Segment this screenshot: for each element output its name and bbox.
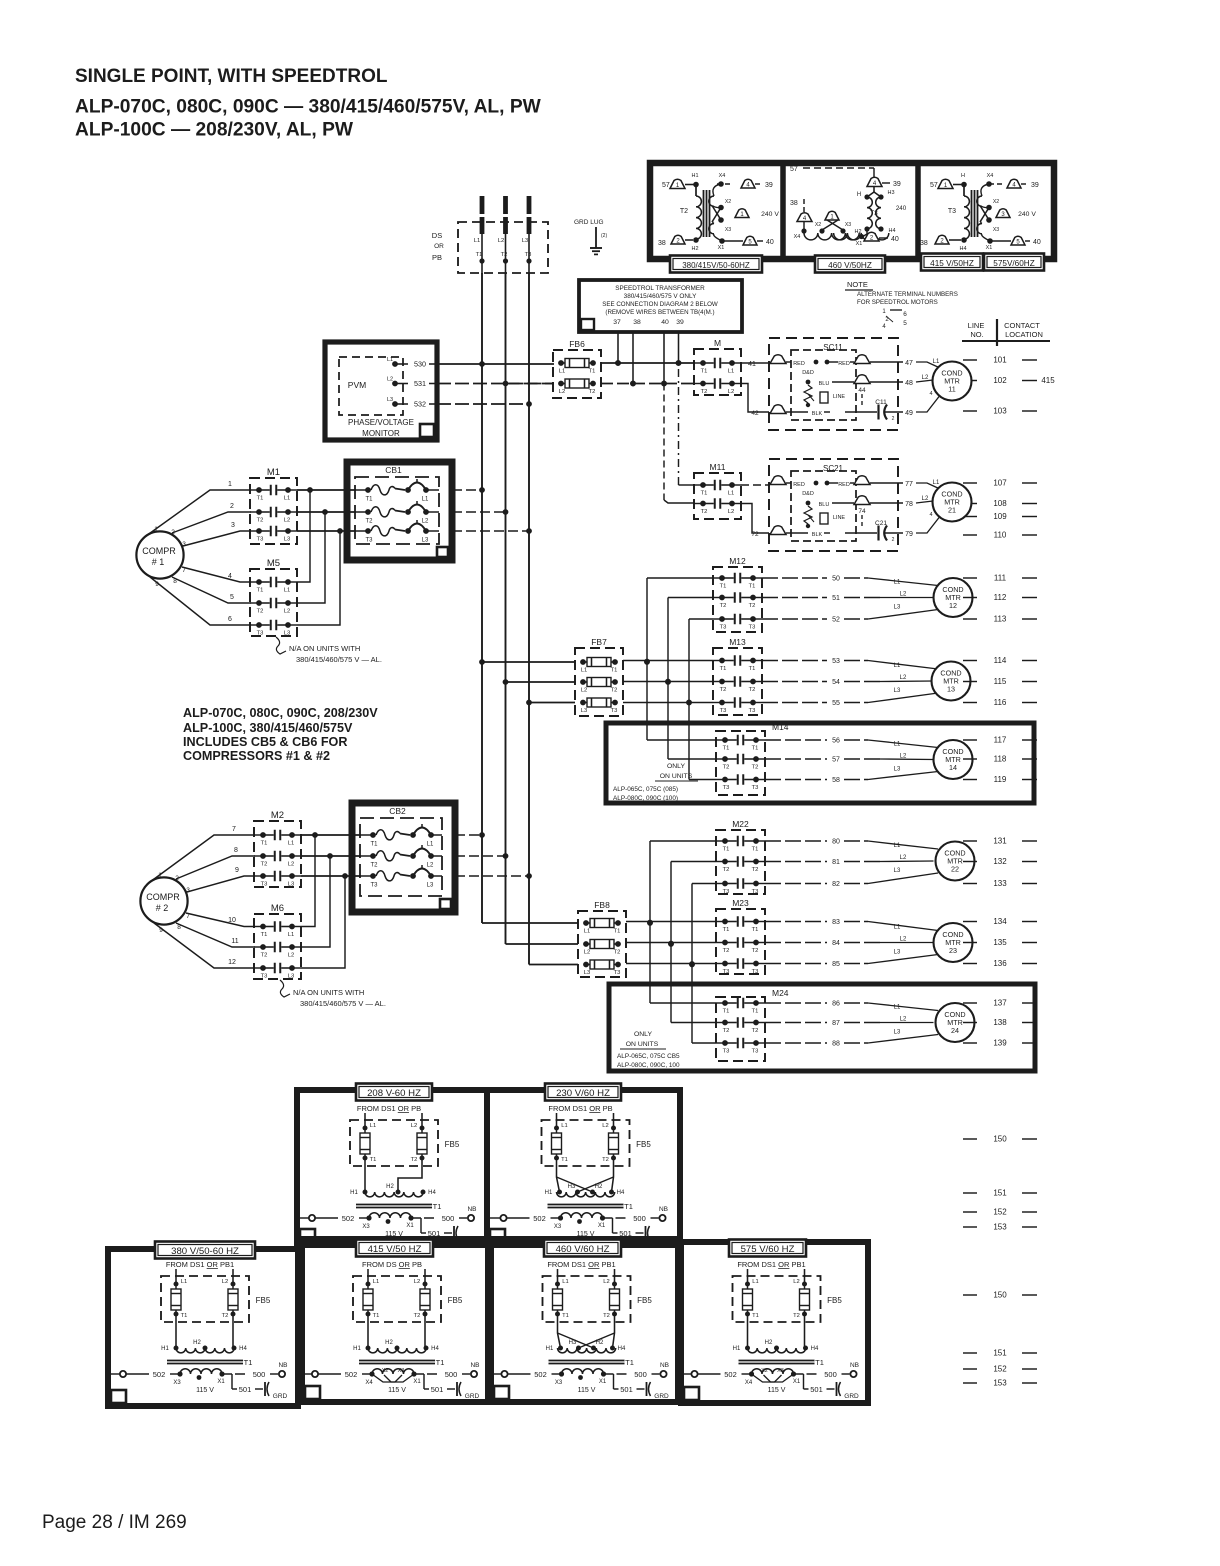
svg-text:T3: T3 [720,708,727,714]
transformer selection outer box [650,163,1054,259]
svg-text:575 V/60 HZ: 575 V/60 HZ [741,1244,795,1255]
svg-text:T1: T1 [476,252,483,258]
contactor M6 [254,903,301,980]
svg-text:1: 1 [228,481,232,488]
svg-text:L1: L1 [894,843,901,849]
line number 109 [963,512,1037,521]
svg-text:ALP-070C, 080C, 090C, 208/230V: ALP-070C, 080C, 090C, 208/230V [183,706,378,720]
svg-text:L1: L1 [370,1123,376,1129]
svg-text:L1: L1 [474,238,480,244]
svg-text:L2: L2 [288,862,294,868]
svg-text:ALP-080C, 090C, 100: ALP-080C, 090C, 100 [617,1062,680,1069]
wire 7 [150,826,255,882]
wire 5 [172,577,251,603]
svg-text:L1: L1 [728,369,734,375]
svg-text:INCLUDES CB5 & CB6 FOR: INCLUDES CB5 & CB6 FOR [183,735,347,749]
svg-text:T3: T3 [749,625,756,631]
svg-text:X4: X4 [987,173,994,179]
svg-text:102: 102 [993,376,1007,385]
svg-text:T1: T1 [720,584,727,590]
svg-text:M2: M2 [271,810,284,821]
svg-text:FB5: FB5 [636,1140,651,1149]
svg-text:T1: T1 [433,1202,442,1211]
only-on-units box M14 [606,723,1034,803]
svg-text:BLU: BLU [819,502,830,508]
svg-text:77: 77 [905,481,913,488]
svg-text:M13: M13 [729,637,746,647]
svg-text:115 V: 115 V [578,1387,596,1394]
svg-text:L1: L1 [561,1123,567,1129]
svg-text:GRD LUG: GRD LUG [574,219,604,226]
title heading [75,66,388,87]
svg-text:SINGLE POINT, WITH SPEEDTROL: SINGLE POINT, WITH SPEEDTROL [75,66,388,87]
svg-text:L1: L1 [584,929,590,935]
svg-text:58: 58 [832,777,840,784]
svg-text:N/A ON UNITS WITH: N/A ON UNITS WITH [289,644,360,653]
compressor 1 pin numbers [154,526,186,588]
circuit breaker CB1 [347,462,452,560]
panel 380V caption [155,1242,255,1259]
svg-text:40: 40 [891,236,899,243]
svg-text:137: 137 [993,999,1007,1008]
svg-text:C11: C11 [875,399,887,406]
svg-text:T2: T2 [411,1157,418,1163]
tap M5 L2 [297,512,325,603]
svg-text:NB: NB [470,1362,479,1369]
svg-text:24: 24 [951,1026,959,1035]
svg-text:L2: L2 [900,754,907,760]
svg-text:T1: T1 [752,1009,759,1015]
svg-text:L2: L2 [728,389,734,395]
svg-text:# 1: # 1 [152,557,165,567]
svg-text:M6: M6 [271,903,284,914]
svg-text:H4: H4 [617,1190,625,1196]
feeder x671 [668,862,716,1023]
svg-text:L3: L3 [581,708,587,714]
svg-text:4: 4 [882,324,886,330]
svg-text:X1: X1 [793,1379,801,1385]
svg-text:T2: T2 [793,1313,800,1319]
svg-text:FB6: FB6 [569,339,585,349]
svg-text:H1: H1 [353,1346,361,1352]
svg-text:11: 11 [231,938,238,945]
svg-text:X4: X4 [719,173,726,179]
svg-text:BLK: BLK [812,411,823,417]
svg-text:T3: T3 [752,785,759,791]
svg-text:T2: T2 [611,688,618,694]
transformer T1 380V circuit [108,1260,288,1400]
transformer panel 415V box [302,1239,488,1402]
transformer panel 230V box [487,1090,680,1245]
contactor M23 [716,898,765,975]
compressor 2 pin numbers [158,872,190,934]
line number 115 [963,677,1037,686]
svg-text:X2: X2 [725,199,731,205]
svg-text:132: 132 [993,857,1007,866]
svg-text:L3: L3 [894,767,901,773]
svg-text:X4: X4 [794,234,801,240]
line number 131 [963,837,1037,846]
svg-text:103: 103 [993,407,1007,416]
svg-text:FB5: FB5 [256,1296,271,1305]
svg-text:3: 3 [186,887,190,894]
wire 38 [630,332,636,386]
subtitle line 2 [75,120,354,141]
svg-text:531: 531 [414,379,426,388]
feeder x668 [665,598,716,760]
wire FB7-M13 row1 [623,659,713,665]
wire 9 [187,867,255,892]
svg-text:PHASE/VOLTAGE: PHASE/VOLTAGE [348,418,414,427]
svg-text:240 V: 240 V [1018,211,1036,218]
bus bend L2-FB8 [506,943,579,945]
svg-text:H4: H4 [428,1190,436,1196]
svg-text:T1: T1 [720,666,727,672]
motor COND MTR 14 with wires 56-58 [765,738,973,785]
contactor M [694,338,741,395]
svg-text:Page 28 / IM 269: Page 28 / IM 269 [42,1512,187,1533]
line number 110 [963,531,1037,540]
svg-text:1: 1 [882,309,886,315]
svg-text:T1: T1 [370,842,378,848]
svg-text:T3: T3 [870,210,878,217]
svg-text:T1: T1 [589,369,596,375]
svg-text:56: 56 [832,738,840,745]
svg-text:T1: T1 [181,1313,188,1319]
svg-text:12: 12 [228,959,236,966]
svg-text:500: 500 [824,1370,837,1379]
svg-text:L3: L3 [894,950,901,956]
wire bus-FB7 row1 [479,659,575,665]
svg-text:13: 13 [947,685,955,694]
svg-text:151: 151 [993,1349,1007,1358]
svg-text:T1: T1 [752,847,759,853]
svg-text:49: 49 [905,410,913,417]
svg-text:T3: T3 [611,708,618,714]
svg-text:T1: T1 [244,1358,253,1367]
svg-text:T3: T3 [723,785,730,791]
svg-text:L3: L3 [894,868,901,874]
svg-text:L2: L2 [584,950,590,956]
svg-text:T3: T3 [261,882,268,888]
svg-text:RED: RED [793,482,805,488]
svg-text:FB5: FB5 [448,1296,463,1305]
wire 3 [183,522,251,546]
svg-text:L3: L3 [288,882,294,888]
svg-text:L1: L1 [581,668,587,674]
svg-text:L3: L3 [284,631,290,637]
svg-text:T1: T1 [752,746,759,752]
line number 138 [963,1018,1037,1027]
svg-text:380/415V/50-60HZ: 380/415V/50-60HZ [682,261,750,270]
svg-text:153: 153 [993,1379,1007,1388]
line number 117 [963,736,1037,745]
svg-text:GRD: GRD [654,1393,669,1400]
svg-text:57: 57 [832,757,840,764]
svg-text:L2: L2 [222,1279,228,1285]
circuit breaker CB2 [352,803,455,912]
wire M2-CB2 row1 [301,832,361,838]
svg-text:T3: T3 [723,1049,730,1055]
svg-text:T1: T1 [611,668,618,674]
svg-text:FROM DS1 OR PB1: FROM DS1 OR PB1 [547,1260,615,1269]
svg-text:T2: T2 [701,509,708,515]
transformer cell2 caption [815,256,885,273]
transformer cell1 caption [670,256,762,273]
svg-text:FB5: FB5 [827,1296,842,1305]
svg-text:ALP-065C, 075C (085): ALP-065C, 075C (085) [613,786,678,793]
speedtrol control SC21 and motor COND MTR 21 [751,459,971,551]
svg-text:415 V/50 HZ: 415 V/50 HZ [368,1244,422,1255]
svg-text:21: 21 [948,506,956,515]
svg-text:T1: T1 [370,1157,377,1163]
panel 415V caption [356,1240,433,1257]
svg-text:501: 501 [810,1385,823,1394]
svg-text:M12: M12 [729,556,746,566]
svg-text:T2: T2 [723,867,730,873]
motor COND MTR 13 with wires 53-55 [762,658,971,707]
svg-text:(REMOVE WIRES BETWEEN TB(4(: (REMOVE WIRES BETWEEN TB(4(M.) [605,309,714,316]
svg-text:T1: T1 [614,929,621,935]
svg-text:L2: L2 [414,1279,420,1285]
svg-text:240: 240 [896,205,907,212]
svg-text:T1: T1 [257,496,264,502]
line number 113 [963,615,1037,624]
svg-text:ONLY: ONLY [667,763,685,770]
svg-text:L1: L1 [562,1279,568,1285]
svg-text:BLK: BLK [812,532,823,538]
svg-text:380/415/460/575 V — AL.: 380/415/460/575 V — AL. [300,999,386,1008]
only-on-units box M24 [609,984,1035,1071]
svg-text:L1: L1 [427,842,434,848]
contactor M12 [713,556,762,632]
wire 10 [186,913,255,927]
line number 153 lower [963,1223,1037,1232]
svg-text:H4: H4 [239,1346,247,1352]
svg-text:3: 3 [231,522,235,529]
line number 152 lower [963,1365,1037,1374]
wire CB2 out3 [455,873,532,879]
feeder x650 [647,841,716,1003]
svg-text:152: 152 [993,1208,1007,1217]
svg-text:L2: L2 [284,518,290,524]
svg-text:T2: T2 [370,863,378,869]
motor COND MTR 23 with wires 83-85 [765,919,973,968]
line number 132 [963,857,1037,866]
line number 137 [963,999,1037,1008]
svg-text:L2: L2 [900,855,907,861]
wire FB6 to M row2 [601,381,694,387]
transformer T1 208V circuit [297,1104,477,1244]
svg-text:50: 50 [832,576,840,583]
svg-text:150: 150 [993,1291,1007,1300]
svg-text:460 V/60 HZ: 460 V/60 HZ [556,1244,610,1255]
svg-text:138: 138 [993,1018,1007,1027]
wire bus-FB7 row3 [526,700,575,706]
svg-text:NB: NB [278,1362,287,1369]
svg-text:MONITOR: MONITOR [362,429,400,438]
wire 39 [676,332,694,485]
svg-text:T3: T3 [752,1049,759,1055]
svg-text:NO.: NO. [970,330,983,339]
transformer panel 575V box [681,1242,868,1403]
svg-text:L2: L2 [284,609,290,615]
line number 116 [963,698,1037,707]
transformer T3 415/575V cell [920,173,1041,252]
feeder x692 [689,884,716,1044]
svg-text:T2: T2 [257,518,264,524]
svg-text:107: 107 [993,479,1007,488]
compressor motor COMPR #2 [140,877,187,924]
tap M5 L1 [297,490,310,582]
svg-text:ALP-100C, 380/415/460/575V: ALP-100C, 380/415/460/575V [183,721,353,735]
svg-text:T1: T1 [752,927,759,933]
svg-text:T1: T1 [815,1358,824,1367]
svg-text:415 V/50HZ: 415 V/50HZ [930,259,974,268]
svg-text:380/415/460/575 V ONLY: 380/415/460/575 V ONLY [624,293,697,300]
svg-text:111: 111 [994,574,1007,583]
svg-text:502: 502 [724,1370,737,1379]
svg-text:M5: M5 [267,558,280,569]
svg-text:T1: T1 [436,1358,445,1367]
svg-text:380/415/460/575 V — AL.: 380/415/460/575 V — AL. [296,655,382,664]
panel 460V caption [544,1240,621,1257]
svg-text:500: 500 [442,1214,455,1223]
svg-text:230 V/60 HZ: 230 V/60 HZ [556,1088,610,1099]
svg-text:T1: T1 [723,746,730,752]
panel 575V caption [729,1240,806,1257]
svg-text:FROM DS1 OR PB1: FROM DS1 OR PB1 [737,1260,805,1269]
transformer T1 575V circuit [680,1260,860,1400]
svg-text:GRD: GRD [273,1393,288,1400]
svg-text:LINE: LINE [968,321,985,330]
svg-text:101: 101 [993,356,1007,365]
svg-text:M14: M14 [772,722,789,732]
svg-text:40: 40 [766,239,774,246]
svg-text:2: 2 [892,537,895,543]
svg-text:H4: H4 [618,1346,626,1352]
svg-text:PVM: PVM [348,380,366,390]
contactor M14 [716,722,789,795]
svg-text:3: 3 [182,541,186,548]
svg-text:87: 87 [832,1020,840,1027]
svg-text:L1: L1 [284,496,290,502]
svg-text:DS: DS [432,231,442,240]
wire 37 [615,332,621,366]
svg-text:L2: L2 [900,937,907,943]
svg-text:L3: L3 [584,970,590,976]
svg-text:80: 80 [832,839,840,846]
line number 108 [963,499,1037,508]
svg-text:T1: T1 [723,927,730,933]
svg-text:131: 131 [993,837,1007,846]
line number 153 lower [963,1379,1037,1388]
wire 12 [154,923,255,968]
svg-text:39: 39 [676,319,684,326]
svg-text:L3: L3 [894,1030,901,1036]
svg-text:SEE CONNECTION DIAGRAM 2 B: SEE CONNECTION DIAGRAM 2 BELOW [602,301,718,308]
svg-text:T2: T2 [603,1313,610,1319]
svg-text:L2: L2 [900,592,907,598]
tap M6 L1 [301,835,315,927]
svg-text:X3: X3 [993,227,999,233]
svg-text:135: 135 [993,938,1007,947]
svg-text:117: 117 [994,736,1007,745]
svg-text:H2: H2 [691,246,698,252]
svg-text:115 V: 115 V [388,1387,406,1394]
svg-text:T1: T1 [561,1157,568,1163]
svg-text:T1: T1 [723,847,730,853]
panel 208V caption [356,1084,432,1101]
svg-text:L2: L2 [427,863,434,869]
svg-text:L1: L1 [933,359,940,365]
line number 133 [963,879,1037,888]
svg-text:T3: T3 [614,970,621,976]
svg-text:X3: X3 [725,227,731,233]
line number 135 [963,938,1037,947]
transformer cell divider 1 [780,166,786,258]
tap M6 L2 [301,856,330,947]
svg-text:NB: NB [467,1206,476,1213]
wire bus to FB6 row2 [506,383,554,385]
wire CB1 out1 [452,487,485,493]
svg-text:502: 502 [342,1214,355,1223]
svg-text:T2: T2 [723,948,730,954]
svg-text:T3: T3 [723,889,730,895]
wire 6 [150,577,251,625]
svg-text:H: H [857,192,861,198]
subtitle line 1 [75,97,542,118]
bus line L1 [481,273,483,923]
transformer T1 230V circuit [489,1104,669,1244]
svg-text:H2: H2 [386,1184,394,1190]
svg-text:T2: T2 [680,208,688,215]
svg-text:H1: H1 [161,1346,169,1352]
svg-text:FROM DS1 OR PB1: FROM DS1 OR PB1 [166,1260,234,1269]
transformer T1 460V circuit [490,1260,670,1400]
svg-text:500: 500 [253,1370,266,1379]
svg-text:39: 39 [893,181,901,188]
transformer T1 415V circuit [300,1260,480,1400]
line number 152 lower [963,1208,1037,1217]
svg-text:T1: T1 [261,841,268,847]
svg-text:53: 53 [832,658,840,665]
svg-text:T3: T3 [752,889,759,895]
svg-text:X3: X3 [555,1380,563,1386]
svg-text:L2: L2 [288,953,294,959]
svg-text:T2: T2 [720,603,727,609]
line number 151 lower [963,1349,1037,1358]
contactor M13 [713,637,762,715]
svg-text:ALP-080C, 090C (100): ALP-080C, 090C (100) [613,795,678,802]
svg-text:T2: T2 [261,953,268,959]
motor COND MTR 12 with wires 50-52 [762,576,973,624]
svg-text:FROM DS1 OR PB: FROM DS1 OR PB [548,1104,612,1113]
svg-text:L3: L3 [387,397,393,403]
wire 42 [741,384,769,413]
svg-text:T3: T3 [525,252,532,258]
svg-text:500: 500 [445,1370,458,1379]
svg-text:T3: T3 [257,537,264,543]
svg-text:6: 6 [903,311,907,318]
svg-text:X1: X1 [406,1223,414,1229]
svg-text:T3: T3 [365,538,373,544]
svg-text:L2: L2 [498,238,504,244]
svg-text:T1: T1 [701,369,708,375]
svg-text:22: 22 [951,865,959,874]
svg-text:L1: L1 [559,369,565,375]
svg-text:T2: T2 [222,1313,229,1319]
